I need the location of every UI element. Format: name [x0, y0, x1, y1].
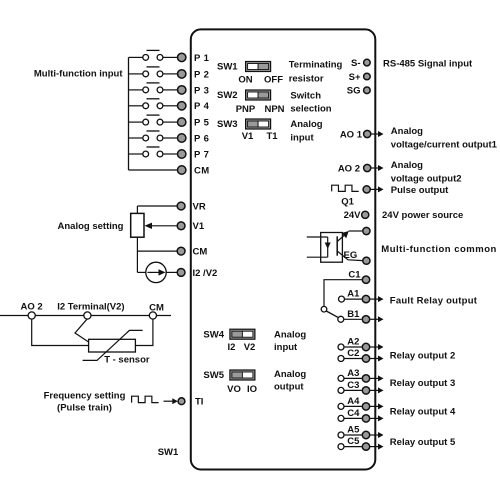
svg-text:P 7: P 7	[194, 149, 209, 160]
svg-text:24V power source: 24V power source	[382, 210, 463, 221]
svg-text:SW2: SW2	[217, 90, 238, 101]
svg-text:V1: V1	[193, 221, 205, 232]
svg-text:AO 2: AO 2	[338, 163, 360, 174]
svg-text:Switch: Switch	[290, 90, 321, 101]
svg-text:Multi-function common: Multi-function common	[381, 244, 497, 255]
svg-text:SW5: SW5	[203, 370, 224, 381]
svg-text:A3: A3	[347, 368, 359, 379]
svg-text:Analog: Analog	[290, 119, 322, 130]
svg-text:C2: C2	[347, 348, 359, 359]
svg-text:TI: TI	[195, 397, 203, 408]
svg-text:SW1: SW1	[217, 62, 238, 73]
svg-text:Relay output 2: Relay output 2	[390, 351, 455, 362]
svg-text:CM: CM	[149, 303, 164, 314]
svg-text:Analog: Analog	[274, 329, 306, 340]
svg-text:(Pulse train): (Pulse train)	[57, 403, 112, 414]
svg-text:EG: EG	[344, 250, 358, 261]
svg-text:P 3: P 3	[194, 85, 209, 96]
svg-text:voltage/current output1: voltage/current output1	[391, 140, 498, 151]
svg-text:Analog setting: Analog setting	[58, 221, 124, 232]
svg-text:Terminating: Terminating	[289, 60, 343, 71]
svg-text:Frequency setting: Frequency setting	[44, 391, 126, 402]
svg-text:SW4: SW4	[203, 329, 224, 340]
svg-text:CM: CM	[193, 247, 208, 258]
svg-text:VO: VO	[227, 384, 241, 395]
svg-text:AO 2: AO 2	[21, 301, 43, 312]
svg-text:Analog: Analog	[274, 369, 306, 380]
svg-text:Relay output 5: Relay output 5	[390, 437, 456, 448]
svg-text:OFF: OFF	[264, 75, 283, 86]
svg-text:output: output	[274, 382, 304, 393]
svg-text:A5: A5	[347, 425, 360, 436]
svg-text:T - sensor: T - sensor	[104, 355, 150, 366]
svg-text:Analog: Analog	[391, 126, 423, 137]
svg-text:C5: C5	[347, 436, 360, 447]
svg-text:ON: ON	[238, 75, 252, 86]
svg-text:resistor: resistor	[289, 73, 324, 84]
svg-text:V2: V2	[244, 342, 256, 353]
svg-text:Q1: Q1	[341, 197, 354, 208]
svg-text:input: input	[274, 342, 298, 353]
svg-text:Multi-function input: Multi-function input	[34, 68, 123, 79]
svg-text:NPN: NPN	[264, 104, 284, 115]
svg-text:V1: V1	[242, 131, 254, 142]
svg-text:CM: CM	[194, 165, 210, 176]
svg-text:S-: S-	[351, 58, 361, 69]
svg-text:T1: T1	[266, 131, 278, 142]
svg-text:C1: C1	[348, 270, 361, 281]
svg-text:C3: C3	[347, 380, 359, 391]
svg-text:voltage output2: voltage output2	[391, 173, 462, 184]
svg-text:P 6: P 6	[194, 133, 209, 144]
svg-text:S+: S+	[349, 72, 361, 83]
svg-text:P 2: P 2	[194, 69, 209, 80]
svg-text:Pulse output: Pulse output	[391, 185, 449, 196]
svg-text:RS-485 Signal input: RS-485 Signal input	[383, 58, 473, 69]
svg-text:P 4: P 4	[194, 101, 210, 112]
svg-text:Relay output 3: Relay output 3	[390, 378, 455, 389]
svg-text:A1: A1	[347, 289, 360, 300]
svg-text:IO: IO	[247, 384, 257, 395]
svg-text:PNP: PNP	[236, 104, 256, 115]
svg-text:SW1: SW1	[158, 447, 179, 458]
svg-text:AO 1: AO 1	[340, 129, 363, 140]
svg-text:Relay output 4: Relay output 4	[390, 407, 456, 418]
svg-text:I2 /V2: I2 /V2	[193, 268, 218, 279]
svg-text:I2 Terminal(V2): I2 Terminal(V2)	[57, 301, 124, 312]
svg-text:B1: B1	[347, 309, 360, 320]
svg-text:selection: selection	[290, 103, 331, 114]
svg-text:P 5: P 5	[194, 118, 210, 129]
svg-text:I2: I2	[228, 342, 236, 353]
svg-text:P 1: P 1	[194, 53, 210, 64]
svg-text:Fault Relay output: Fault Relay output	[390, 295, 478, 306]
svg-text:A4: A4	[347, 396, 360, 407]
svg-text:Analog: Analog	[391, 160, 423, 171]
svg-text:A2: A2	[347, 337, 359, 348]
svg-text:input: input	[290, 132, 314, 143]
svg-text:SW3: SW3	[217, 119, 238, 130]
svg-text:SG: SG	[347, 86, 361, 97]
svg-text:24V: 24V	[344, 210, 362, 221]
svg-text:VR: VR	[193, 201, 206, 212]
svg-text:C4: C4	[347, 408, 360, 419]
